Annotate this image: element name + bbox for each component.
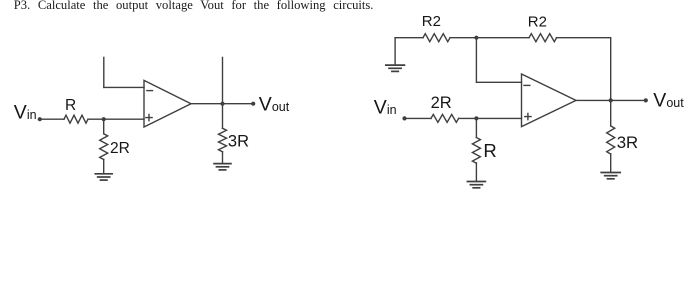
wire top rail left segment: [395, 37, 423, 39]
resistor 3R (left): [219, 128, 227, 151]
label plus (U1): [146, 115, 152, 121]
wire R to op-amp plus input: [88, 118, 144, 120]
ground (under 3R left): [214, 164, 231, 170]
node output junction dot (right): [609, 98, 613, 102]
wire junction down to minus input: [476, 38, 521, 83]
node Vout terminal dot (right): [644, 98, 648, 102]
svg-text:R: R: [65, 97, 76, 114]
wire minus-input stub (up): [103, 57, 105, 87]
ground (under 3R right): [601, 173, 620, 179]
wire 3R to ground: [222, 152, 224, 164]
svg-text:R: R: [483, 140, 496, 161]
resistor 2R (right): [431, 114, 459, 122]
wire minus-input horizontal: [104, 86, 144, 88]
svg-text:2R: 2R: [431, 94, 452, 112]
wire Vin to 2R: [405, 117, 432, 119]
node plus-input junction dot: [474, 116, 478, 120]
wire rail left end down to ground: [394, 38, 396, 65]
wire op-amp output: [191, 103, 253, 105]
op-amp U2: [522, 74, 577, 127]
resistor R2 (first): [423, 34, 450, 42]
label minus (U2): [524, 84, 530, 86]
resistor R: [64, 115, 88, 123]
wire node down to resistor R: [475, 118, 477, 137]
wire output down to 3R: [610, 100, 612, 126]
wire output vertical stub up: [222, 57, 224, 128]
svg-text:P3. Calculate the output volta: P3. Calculate the output voltage Vout fo…: [14, 0, 374, 12]
node Vin terminal dot (right): [402, 116, 406, 120]
resistor 3R (right): [607, 126, 615, 154]
op-amp U1: [144, 80, 191, 127]
wire Vin to resistor R: [40, 118, 64, 120]
node Vout terminal dot (left): [251, 102, 255, 106]
ground (under 2R): [95, 174, 112, 180]
node junction dot (Vin node): [102, 117, 106, 121]
svg-text:3R: 3R: [228, 132, 249, 150]
label minus (U1): [147, 90, 153, 92]
svg-text:3R: 3R: [617, 133, 638, 152]
resistor R (right): [472, 138, 480, 164]
node output junction dot: [220, 102, 224, 106]
svg-text:R2: R2: [528, 13, 547, 30]
resistor R2 (feedback): [529, 34, 557, 42]
label plus (U2): [525, 114, 531, 120]
ground (top rail): [386, 65, 405, 71]
wire node down to resistor 2R: [103, 119, 105, 134]
resistor 2R: [100, 134, 108, 160]
wire 2R to op-amp plus input: [459, 117, 522, 119]
wire 3R to ground: [610, 154, 612, 173]
node top junction dot: [474, 36, 478, 40]
wire op-amp output to Vout: [576, 99, 646, 101]
svg-text:R2: R2: [422, 13, 441, 30]
wire between R2s: [450, 37, 529, 39]
ground (under R right): [467, 182, 485, 188]
svg-text:2R: 2R: [110, 140, 130, 157]
wire R to ground: [475, 163, 477, 182]
wire rail to right corner and down to output: [557, 38, 611, 101]
node Vin terminal dot (left): [38, 117, 42, 121]
wire 2R to ground: [103, 159, 105, 174]
